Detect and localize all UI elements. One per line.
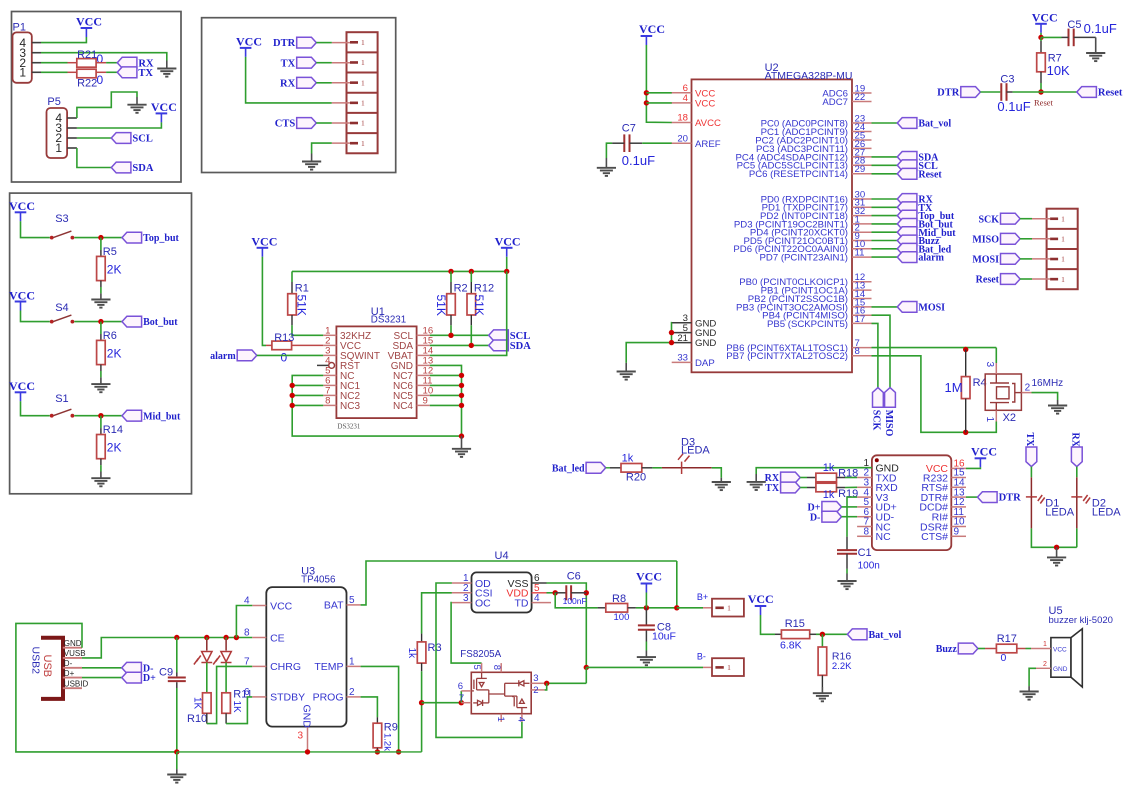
- svg-text:2: 2: [349, 687, 355, 698]
- wire R18 to U6 pin2: [845, 477, 857, 479]
- USB2 pin USBID stub: [63, 687, 82, 689]
- wire U6 GND to ground: [756, 468, 872, 474]
- svg-text:FS8205A: FS8205A: [460, 649, 501, 660]
- capacitor C8: [638, 625, 655, 629]
- wire to charge LED1: [206, 638, 208, 640]
- junction VCC/C8/B+: [644, 605, 649, 610]
- U2 pin 22 stub: [852, 101, 872, 103]
- svg-text:Top_but: Top_but: [143, 233, 179, 244]
- svg-text:2K: 2K: [107, 262, 122, 276]
- resistor R4 top lead: [965, 350, 967, 377]
- crystal X2 symbol: [990, 374, 1021, 410]
- switch S4: [50, 315, 75, 323]
- U2 pin 32 stub: [852, 215, 872, 217]
- wire BAT top to B+ row: [676, 561, 678, 608]
- crystal X2 pin3 stub: [995, 363, 997, 374]
- C7 left lead: [612, 142, 624, 144]
- svg-text:LEDA: LEDA: [681, 444, 710, 456]
- svg-text:20: 20: [677, 133, 688, 144]
- LED D3 symbol: [678, 454, 690, 474]
- capacitor C7: [624, 134, 629, 152]
- wire VCC to switch S1: [21, 401, 50, 415]
- P1 pin 2 stub: [32, 62, 41, 64]
- wire U2 pin5 gnd: [671, 332, 674, 334]
- svg-text:51K: 51K: [294, 295, 308, 316]
- U2 pin 7 stub: [852, 347, 872, 349]
- svg-text:Mid_but: Mid_but: [143, 411, 181, 422]
- connector USB2 body: [41, 638, 63, 699]
- wire USB D+ to flag: [82, 677, 122, 679]
- svg-text:C6: C6: [567, 570, 581, 582]
- svg-text:22: 22: [855, 92, 866, 103]
- svg-text:alarm: alarm: [210, 351, 236, 362]
- junction U1 NC right: [459, 373, 464, 378]
- svg-text:RX: RX: [1070, 433, 1081, 448]
- wire rail to ground: [176, 752, 178, 769]
- wire VDD down to R8: [555, 593, 597, 608]
- U6 pin 2 stub: [857, 477, 872, 479]
- header pin stub: [332, 122, 350, 124]
- U2 pin 8 stub: [852, 355, 872, 357]
- wire junction to R6: [100, 322, 102, 334]
- VCC power symbol above U2: [639, 22, 665, 45]
- LED D2 lower lead: [1076, 497, 1078, 529]
- ground at buzzer: [1020, 692, 1039, 700]
- junction R3 gates: [419, 700, 424, 705]
- svg-text:CHRG: CHRG: [270, 661, 301, 673]
- net label Top_but at U2: [897, 210, 955, 222]
- svg-text:PD7 (PCINT23AIN1): PD7 (PCINT23AIN1): [760, 253, 849, 264]
- VCC power symbol for switch S4: [9, 288, 35, 310]
- svg-text:Bat_led: Bat_led: [552, 463, 585, 474]
- wire CTS flag to header: [316, 122, 332, 124]
- wire VCC to switch S4: [21, 311, 50, 322]
- wire VDD to C6: [547, 592, 556, 594]
- svg-text:11: 11: [855, 248, 865, 259]
- wire D+ to U6 pin5: [842, 506, 858, 508]
- wire USB D- to flag: [82, 667, 122, 669]
- header pin stub: [332, 102, 350, 104]
- wire D3 to ground: [712, 468, 722, 478]
- wire U2 PB5 to SCK flag: [872, 323, 878, 387]
- svg-text:VCC: VCC: [495, 234, 521, 248]
- svg-text:1K: 1K: [231, 701, 242, 714]
- svg-text:Reset: Reset: [976, 275, 1000, 286]
- R17 right lead: [1017, 648, 1026, 650]
- R6 bottom lead: [100, 365, 102, 371]
- svg-text:0.1uF: 0.1uF: [997, 99, 1030, 114]
- LED D3 inline body: [662, 467, 712, 469]
- header pin stub: [332, 62, 350, 64]
- net label Bot_but: [122, 316, 178, 328]
- svg-text:NC3: NC3: [340, 401, 360, 412]
- C7 right lead: [630, 142, 643, 144]
- svg-text:1: 1: [361, 119, 365, 128]
- svg-text:1: 1: [495, 717, 506, 722]
- USB2 pin VUSB stub: [63, 657, 82, 659]
- U2 pin 18 stub: [672, 122, 692, 124]
- U4 pin 1 stub: [452, 582, 472, 584]
- R20 right lead: [642, 467, 653, 469]
- svg-text:2K: 2K: [107, 346, 122, 360]
- FS8205A pin5 stub: [481, 663, 483, 672]
- U2 pin 21 stub: [672, 342, 692, 344]
- B- pin dash: [715, 666, 723, 669]
- svg-text:R19: R19: [838, 488, 858, 500]
- junction C6 right: [584, 590, 589, 595]
- svg-text:NC4: NC4: [393, 401, 413, 412]
- wire D- to U6 pin6: [842, 516, 858, 518]
- svg-text:16MHz: 16MHz: [1032, 378, 1064, 389]
- R2 bottom lead: [450, 315, 452, 325]
- resistor R22: [77, 69, 96, 78]
- R15 right lead: [810, 633, 816, 635]
- svg-text:D+: D+: [143, 673, 156, 684]
- junction R9 rail: [375, 749, 380, 754]
- net label SCL: [111, 133, 153, 145]
- FS8205A pin2 stub: [531, 689, 544, 691]
- R10 bottom lead: [206, 713, 208, 723]
- wire VCC to junction: [1040, 33, 1042, 38]
- U6 pin 9 stub: [951, 535, 966, 537]
- C8 bottom lead: [645, 631, 647, 642]
- wire SCK to header: [1020, 218, 1032, 220]
- ground stem C5: [1095, 37, 1097, 53]
- VCC power symbol at P1: [76, 14, 102, 37]
- svg-text:1k: 1k: [406, 648, 417, 660]
- svg-text:CTS#: CTS#: [921, 531, 948, 543]
- U1 pin 16 stub: [417, 334, 430, 336]
- P5 pin 3 stub: [67, 127, 77, 129]
- wire D1 to ground bus: [1031, 528, 1076, 547]
- svg-text:1: 1: [361, 98, 365, 107]
- net label TX in header box: [281, 57, 317, 69]
- ground stem D3: [720, 478, 722, 482]
- svg-text:3: 3: [533, 673, 538, 684]
- U6 pin 6 stub: [857, 516, 872, 518]
- svg-text:33: 33: [677, 353, 688, 364]
- wire VCC to R13: [262, 257, 266, 346]
- FS8205A pin1 stub: [500, 714, 502, 722]
- U2 pin 14 stub: [852, 298, 872, 300]
- wire P5 pin1 to SDA flag: [77, 148, 111, 168]
- svg-text:17: 17: [855, 314, 866, 325]
- svg-text:DTR: DTR: [999, 493, 1022, 504]
- svg-text:0.1uF: 0.1uF: [1084, 21, 1117, 36]
- FS8205A pin3 stub: [531, 682, 544, 684]
- net label Reset at U2: [897, 168, 942, 180]
- U6 pin 15 stub: [951, 477, 966, 479]
- wire R8 to B+ junction: [636, 607, 677, 609]
- resistor R2: [447, 294, 456, 315]
- R15 left lead: [775, 633, 781, 635]
- resistor R20: [621, 464, 642, 473]
- P1 pin 3 stub: [32, 52, 41, 54]
- junction R2 top: [448, 269, 453, 274]
- P5 pin 1 stub: [67, 147, 77, 149]
- svg-text:R3: R3: [428, 642, 442, 654]
- SPI header pin stub: [1032, 278, 1050, 280]
- connector J1 6-pin program header: [347, 32, 378, 153]
- wire C8 to ground: [645, 642, 647, 651]
- svg-text:GND: GND: [1053, 666, 1068, 673]
- FS8205A internal mosfets: [471, 672, 529, 713]
- FS8205A pin7 stub: [461, 702, 471, 704]
- svg-text:8: 8: [491, 665, 502, 670]
- net label RX at U2: [897, 194, 933, 206]
- VCC power symbol for switch S1: [9, 379, 35, 401]
- ground stem C8: [645, 651, 647, 658]
- buzzer pin2 stub: [1036, 667, 1051, 669]
- wire P5 pin2 to SCL flag: [77, 137, 111, 139]
- R12 bottom lead: [470, 315, 472, 325]
- wire U2 pin 29 to Reset flag: [872, 173, 898, 175]
- svg-text:5: 5: [349, 595, 355, 606]
- SPI header pin stub: [1032, 218, 1050, 220]
- capacitor C3: [1001, 83, 1006, 101]
- U1 pin 13 stub: [417, 364, 430, 366]
- stub: [965, 348, 967, 352]
- resistor R1: [288, 294, 297, 315]
- junction U2 gnd pin21: [669, 340, 674, 345]
- junction U1 NC right: [459, 393, 464, 398]
- wire R3 to rail and gates: [421, 671, 423, 752]
- resistor R13: [272, 341, 292, 350]
- svg-text:BAT: BAT: [324, 600, 344, 612]
- svg-text:PB7 (PCINT7XTAL2TOSC2): PB7 (PCINT7XTAL2TOSC2): [726, 351, 848, 362]
- junction U3 GND rail: [305, 749, 310, 754]
- U2 pin 6 stub: [672, 92, 692, 94]
- svg-text:AREF: AREF: [695, 139, 721, 150]
- svg-text:TEMP: TEMP: [314, 661, 343, 673]
- svg-text:1: 1: [361, 58, 365, 67]
- crystal X2 outer box: [985, 374, 1021, 410]
- wire: [606, 467, 610, 469]
- svg-text:MOSI: MOSI: [918, 303, 945, 314]
- R13 right lead to U1 pin2: [292, 344, 324, 346]
- R18 left lead: [807, 477, 816, 479]
- net label Bat_led: [552, 462, 606, 474]
- svg-text:51K: 51K: [472, 295, 486, 316]
- junction LED1 top: [204, 635, 209, 640]
- resistor R6: [97, 340, 106, 364]
- svg-text:R6: R6: [103, 330, 117, 342]
- wire R19 to U6 pin3: [845, 486, 857, 488]
- svg-text:PB5 (SCKPCINT5): PB5 (SCKPCINT5): [767, 319, 848, 330]
- ground at C7: [597, 168, 616, 176]
- wire U2 pin 2 to Mid_but flag: [872, 231, 898, 233]
- svg-text:VCC: VCC: [9, 288, 35, 302]
- wire R15 to Bat_vol flag: [816, 633, 847, 635]
- R7 top lead: [1040, 41, 1042, 53]
- resistor R21: [77, 59, 96, 68]
- ground stem P5: [136, 97, 138, 105]
- C8 top lead: [645, 608, 647, 625]
- net label RX at U6: [765, 472, 801, 484]
- capacitor C9: [168, 678, 186, 682]
- R14 top lead: [100, 428, 102, 434]
- wire MOSI to header: [1020, 258, 1032, 260]
- svg-text:R10: R10: [187, 713, 207, 725]
- wire USB GND loop to rail: [16, 623, 177, 752]
- svg-text:R17: R17: [997, 633, 1017, 645]
- svg-text:X2: X2: [1003, 412, 1016, 424]
- wire VCC to U6 pin16: [966, 467, 980, 468]
- capacitor C5: [1069, 29, 1074, 47]
- net label SDA at U1: [489, 340, 532, 352]
- net label alarm: [210, 350, 257, 362]
- net label Bat_led at U2: [897, 243, 951, 255]
- ground stem header: [311, 154, 313, 162]
- net label D- at U6: [810, 511, 842, 523]
- svg-text:SCK: SCK: [871, 410, 882, 431]
- connector B- box: [712, 658, 744, 676]
- wire U2 PB6 to crystal top: [872, 347, 997, 349]
- U2 pin 2 stub: [852, 231, 872, 233]
- VCC power symbol for switch S3: [9, 199, 35, 221]
- svg-text:VCC: VCC: [1053, 646, 1067, 653]
- wire R20 to D3: [652, 467, 662, 469]
- junction U1 pin8: [290, 403, 295, 408]
- net label D- at USB: [122, 662, 154, 674]
- U3 pin 2 stub: [347, 696, 361, 698]
- U2 pin 12 stub: [852, 281, 872, 283]
- P1 pin 4 stub: [32, 42, 41, 44]
- connector B+ box: [712, 599, 744, 617]
- U6 pin 13 stub: [951, 496, 966, 498]
- svg-text:R20: R20: [626, 472, 646, 484]
- wire U1 NC pins to ground bus: [292, 375, 461, 436]
- svg-text:100n: 100n: [858, 561, 880, 572]
- R12 top lead: [470, 282, 472, 294]
- svg-text:1: 1: [349, 657, 355, 668]
- U2 pin 16 stub: [852, 314, 872, 316]
- LED D2: [1071, 495, 1090, 504]
- wire U4 OD to FS8205A pin4: [436, 583, 522, 737]
- U2 pin 26 stub: [852, 147, 872, 149]
- wire U2 pin 28 to SCL flag: [872, 164, 898, 166]
- switch S3: [50, 231, 75, 239]
- junction U1 NC right: [459, 403, 464, 408]
- svg-text:29: 29: [855, 164, 866, 175]
- wire to charge LED2: [225, 638, 227, 640]
- ground at U2: [617, 372, 636, 380]
- R21 right lead: [96, 62, 106, 64]
- ground at D3: [712, 482, 731, 490]
- svg-text:1: 1: [1061, 234, 1065, 243]
- buzzer U5 body: [1051, 629, 1082, 687]
- junction R16 top: [820, 632, 825, 637]
- VCC power symbol at U6: [971, 444, 997, 467]
- svg-text:Reset: Reset: [918, 169, 942, 180]
- svg-text:0: 0: [97, 52, 104, 66]
- wire U1 NC pin right: [430, 384, 462, 386]
- svg-text:4: 4: [683, 93, 689, 104]
- net label TX: [117, 67, 153, 79]
- wire U2 pin 30 to RX flag: [872, 198, 898, 200]
- connector P5 body: [47, 108, 68, 158]
- wire U2 PB4 to MISO flag: [872, 315, 891, 387]
- U4 pin 6 stub: [532, 582, 547, 584]
- svg-text:8: 8: [244, 628, 250, 639]
- svg-text:PC6 (RESETPCINT14): PC6 (RESETPCINT14): [749, 169, 848, 180]
- svg-text:1.2k: 1.2k: [381, 733, 392, 751]
- svg-text:VCC: VCC: [270, 600, 293, 612]
- svg-text:2K: 2K: [107, 441, 122, 455]
- wire buzzer GND to ground: [1029, 668, 1036, 686]
- wire C7 to ground: [606, 143, 612, 158]
- svg-text:VCC: VCC: [639, 22, 665, 36]
- wire R11 to U3 STDBY: [226, 697, 252, 724]
- net label SCK vertical: [871, 388, 884, 431]
- U2 pin 10 stub: [852, 248, 872, 250]
- U1 pin 5 stub: [323, 374, 336, 376]
- junction R4 top: [963, 347, 968, 352]
- resistor R8: [606, 604, 628, 613]
- U3 pin 3 GND stub bottom: [307, 727, 309, 752]
- U2 pin 33 stub: [672, 361, 692, 363]
- R1 bottom lead: [291, 315, 293, 325]
- U6 pin 11 stub: [951, 516, 966, 518]
- VCC power symbol at B+: [636, 570, 662, 593]
- P1 pin 1 stub: [32, 71, 41, 73]
- svg-text:alarm: alarm: [918, 253, 944, 264]
- wire U1 SDA: [430, 344, 489, 346]
- net label alarm at U2: [897, 252, 944, 264]
- svg-text:R5: R5: [103, 246, 117, 258]
- VCC power symbol at R7: [1032, 10, 1058, 33]
- svg-text:R1: R1: [295, 283, 309, 295]
- svg-text:VCC: VCC: [695, 99, 715, 110]
- svg-text:1: 1: [1061, 214, 1065, 223]
- ground stem C1: [846, 574, 848, 582]
- svg-text:GND: GND: [301, 705, 313, 729]
- wire U1 VBAT to VCC: [430, 271, 507, 355]
- charger chip U3 TP4056 body: [266, 587, 346, 727]
- svg-text:ATMEGA328P-MU: ATMEGA328P-MU: [765, 70, 853, 82]
- resistor R3: [417, 642, 426, 663]
- svg-text:CTS: CTS: [275, 119, 296, 130]
- crystal X2 pin1 stub: [995, 410, 997, 421]
- svg-text:P5: P5: [47, 96, 60, 108]
- svg-text:100nF: 100nF: [563, 596, 587, 606]
- svg-text:9: 9: [423, 396, 428, 407]
- USB2 pin D- stub: [63, 667, 82, 669]
- C6 right lead: [571, 592, 586, 594]
- svg-text:GND: GND: [64, 639, 82, 648]
- svg-text:R2: R2: [454, 283, 468, 295]
- U1 pin 6 stub: [323, 384, 336, 386]
- net label TX at U6: [765, 482, 800, 494]
- svg-text:0: 0: [97, 73, 104, 87]
- U1 pin 4 RST stub with bubble: [317, 364, 328, 366]
- svg-text:100: 100: [614, 612, 630, 623]
- ground at C5: [1086, 53, 1105, 61]
- R20 left lead: [610, 467, 621, 469]
- wire U1 pin6: [292, 384, 323, 386]
- U3 pin 8 stub: [252, 637, 266, 639]
- wire R7 to reset net: [1040, 83, 1042, 92]
- svg-text:TX: TX: [281, 58, 296, 69]
- U2 pin 20 stub: [672, 142, 692, 144]
- wire U6 DTR# to flag: [966, 496, 978, 498]
- svg-text:10uF: 10uF: [652, 630, 676, 642]
- R3 bottom lead: [421, 663, 423, 671]
- wire R6 to ground: [100, 371, 102, 377]
- wire to U2 pin4: [646, 102, 672, 104]
- svg-text:NC: NC: [876, 531, 892, 543]
- svg-text:D-: D-: [810, 512, 821, 523]
